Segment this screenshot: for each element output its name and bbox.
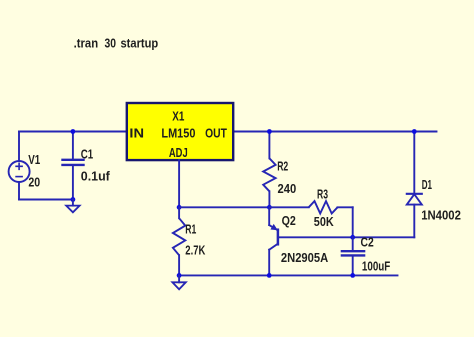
- svg-text:R2: R2: [277, 159, 288, 174]
- diode D1: [407, 132, 422, 238]
- wire ADJ stub: [178, 160, 180, 207]
- svg-text:0.1uf: 0.1uf: [81, 169, 111, 184]
- svg-text:R1: R1: [185, 221, 196, 236]
- svg-text:2N2905A: 2N2905A: [281, 250, 329, 265]
- svg-text:startup: startup: [121, 35, 159, 50]
- wire bottom rail: [179, 274, 397, 276]
- svg-text:IN: IN: [129, 125, 144, 140]
- wire top rail left: [19, 131, 127, 133]
- resistor R3: [269, 201, 352, 237]
- ground below R1: [172, 275, 185, 289]
- svg-text:1N4002: 1N4002: [421, 207, 461, 222]
- resistor R2: [263, 132, 275, 208]
- svg-text:D1: D1: [422, 177, 432, 192]
- svg-text:ADJ: ADJ: [169, 145, 188, 160]
- ground below C1: [66, 200, 79, 213]
- wire ADJ node horizontal: [179, 206, 269, 208]
- capacitor C2: [342, 237, 364, 275]
- svg-text:V1: V1: [28, 152, 40, 167]
- svg-text:C2: C2: [361, 235, 374, 250]
- junction R1 bottom: [177, 273, 182, 278]
- directive .tran 30 startup: [74, 35, 159, 50]
- resistor R1: [173, 207, 185, 275]
- svg-text:LM150: LM150: [161, 125, 195, 140]
- svg-text:.tran: .tran: [74, 35, 99, 50]
- svg-text:50K: 50K: [314, 214, 334, 229]
- junction Q2 collector: [267, 273, 272, 278]
- wire C1 top lead: [72, 132, 74, 159]
- wire base node to D1: [353, 236, 415, 238]
- svg-text:30: 30: [105, 35, 117, 50]
- regulator X1 body: [127, 103, 233, 160]
- svg-text:R3: R3: [317, 187, 328, 202]
- junction ADJ node: [177, 205, 182, 210]
- junction D1 top: [412, 129, 417, 134]
- svg-text:240: 240: [278, 181, 297, 196]
- wire V1 bottom to C1: [19, 199, 73, 201]
- svg-text:2.7K: 2.7K: [185, 242, 205, 257]
- junction C1 bottom: [71, 197, 76, 202]
- voltage source V1: [9, 132, 30, 200]
- junction R2 top: [267, 129, 272, 134]
- svg-text:OUT: OUT: [205, 125, 227, 140]
- junction R2 bottom / Q2 emitter node: [267, 205, 272, 210]
- junction C2 top node: [350, 235, 355, 240]
- svg-text:X1: X1: [172, 109, 184, 124]
- junction C2 bottom: [350, 273, 355, 278]
- svg-text:100uF: 100uF: [362, 259, 390, 274]
- junction C1 top: [71, 129, 76, 134]
- svg-text:C1: C1: [81, 147, 93, 162]
- wire top rail right: [233, 131, 436, 133]
- capacitor C1: [63, 160, 84, 200]
- svg-text:20: 20: [28, 174, 40, 189]
- svg-text:Q2: Q2: [282, 213, 296, 228]
- transistor Q2 (PNP): [269, 207, 353, 275]
